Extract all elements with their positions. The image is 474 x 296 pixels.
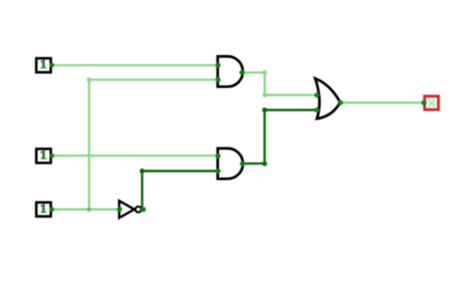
wire AND1 to OR input1 — [265, 94, 319, 96]
port dot AND1 out — [239, 70, 244, 75]
port dot OR out — [338, 100, 343, 105]
node corner AND2-to-OR — [262, 108, 267, 113]
input pin 3 (value 1) — [36, 202, 51, 216]
port dot AND2 out — [240, 161, 245, 166]
wire B: input2 to AND2 input1 — [52, 155, 218, 157]
node corner AND1-out bottom — [262, 93, 267, 98]
wire branch C-up horizontal to AND1 input2 — [89, 79, 218, 81]
port dot NOT out — [141, 207, 146, 212]
port dot input3 — [49, 207, 54, 212]
port dot AND1 in1 — [215, 63, 220, 68]
node corner NOT-out-up — [140, 169, 145, 174]
wire C: input3 to NOT input — [52, 208, 120, 210]
wire AND2 to OR input2 — [265, 109, 319, 111]
port dot input2 — [49, 153, 54, 158]
wire AND1 output vertical — [264, 73, 266, 96]
port dot AND2 in2 — [215, 168, 220, 173]
and-gate U1 (top) — [218, 56, 243, 86]
wire NOT output to AND2 input2 — [142, 170, 218, 172]
wire AND2 output vertical — [263, 110, 265, 164]
not-gate U3 — [119, 201, 141, 218]
wire A: input1 to AND1 input1 — [52, 64, 218, 66]
port dot AND2 in1 — [215, 153, 220, 158]
wire AND2 output horizontal — [243, 162, 265, 164]
output pin X — [425, 96, 439, 109]
node corner C junction — [87, 207, 91, 211]
wire AND1 output horizontal — [242, 71, 265, 73]
node corner AND1-out top — [262, 70, 267, 75]
port dot input1 — [49, 63, 54, 68]
node corner A-branch junction — [87, 77, 92, 82]
or-gate U4 — [315, 79, 340, 119]
input pin 1 (value 1) — [36, 58, 51, 72]
port dot OR in2 — [314, 108, 319, 113]
wire branch C vertical — [88, 80, 90, 210]
wire NOT output vertical — [141, 171, 143, 209]
port dot NOT in — [117, 207, 122, 212]
and-gate U2 (middle) — [218, 148, 243, 178]
port dot AND1 in2 — [215, 77, 220, 82]
node corner AND2-out — [262, 161, 267, 166]
port dot OR in1 — [314, 93, 319, 98]
wire OR output to pin X — [340, 101, 424, 103]
port dot pin X — [421, 100, 426, 105]
input pin 2 (value 1) — [36, 149, 51, 163]
